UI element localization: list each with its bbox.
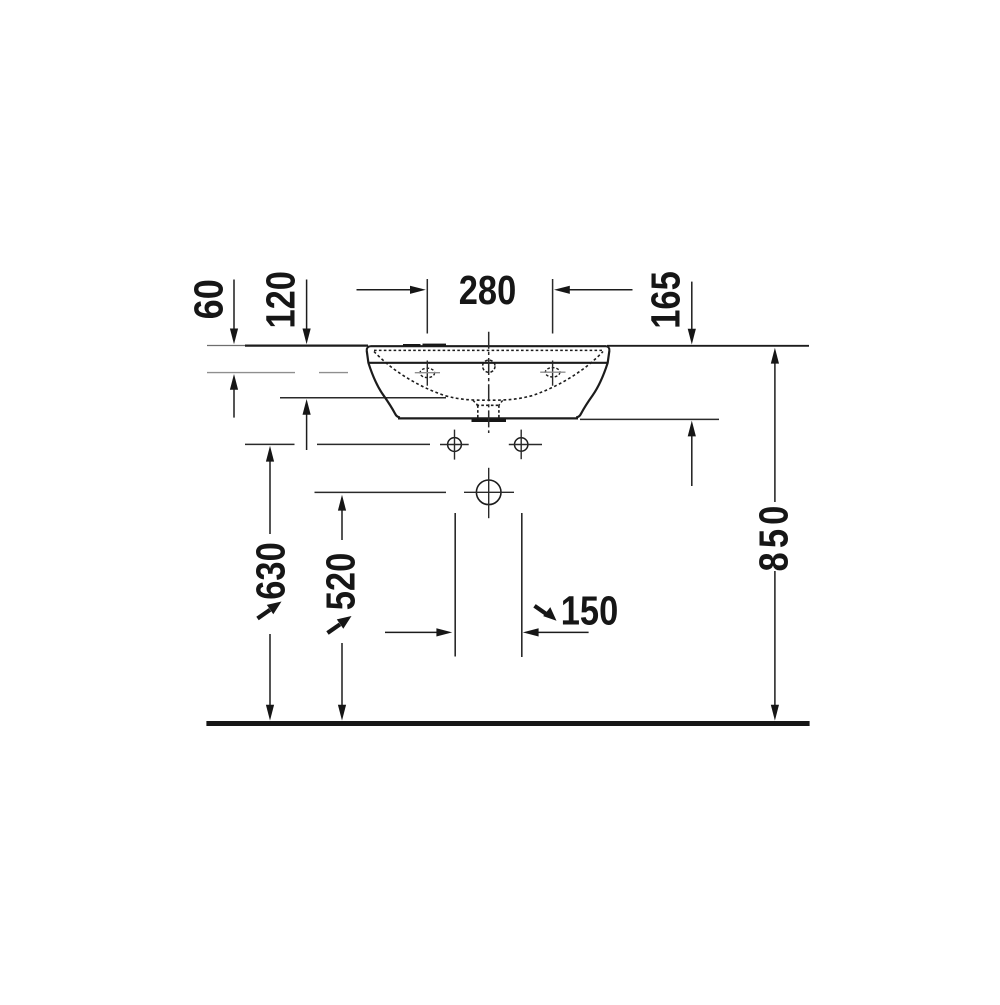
dim 520 line upper: [338, 495, 346, 540]
drain circle horizontal crosshair: [464, 491, 514, 493]
dim 850 line upper: [771, 348, 779, 502]
drain funnel dashed right slant: [499, 400, 503, 405]
dim 630 line upper: [266, 446, 274, 534]
basin rim front line: [369, 362, 609, 364]
basin top-right corner: [606, 346, 609, 350]
left tap hole dashed ellipse: [420, 368, 435, 377]
mounting holes line: [245, 443, 430, 445]
drain funnel dashed left slant: [473, 400, 478, 405]
basin bottom edge: [398, 417, 578, 419]
dim 120 down arrow: [303, 280, 311, 345]
right tap hole dashed ellipse: [545, 368, 560, 377]
dim 150 right extension line: [521, 513, 523, 657]
left tap hole vertical crosshair: [426, 361, 428, 386]
dim 280 right extension line: [552, 279, 554, 334]
basin top-left corner: [367, 346, 371, 350]
dim 150 leader arrow: [535, 606, 557, 621]
wall reference line left: [245, 345, 368, 347]
dim 850 line lower: [771, 571, 779, 721]
left mounting hole horizontal crosshair: [440, 444, 469, 446]
center faucet hole: [483, 360, 495, 372]
dim 520 leader arrow: [328, 616, 352, 633]
basin top edge: [371, 345, 607, 347]
bowl hidden outline dotted curve: [374, 352, 603, 401]
drain funnel dashed left wall: [477, 405, 479, 417]
svg-text:280: 280: [459, 268, 516, 313]
right mounting hole: [515, 438, 528, 451]
wall reference line left thin segment: [207, 345, 246, 347]
rim dark mark b: [423, 344, 447, 346]
drain bottom thick bar: [472, 419, 507, 422]
svg-text:60: 60: [186, 279, 232, 319]
svg-text:150: 150: [561, 589, 618, 634]
left tap hole horizontal crosshair (gray): [415, 372, 440, 374]
left mounting hole: [448, 438, 462, 452]
dim 120 up arrow: [303, 399, 311, 450]
drain funnel dashed right wall: [498, 405, 500, 417]
right tap hole horizontal crosshair (gray): [540, 371, 565, 373]
dim 630 leader arrow: [258, 602, 282, 619]
drain circle vertical crosshair: [488, 468, 490, 518]
dim 520 line lower: [338, 643, 346, 721]
svg-text:850: 850: [752, 501, 797, 571]
dim 280 left extension line: [426, 279, 428, 334]
tap hole centerline extension (gray): [207, 372, 348, 374]
wall reference line right: [607, 345, 809, 347]
right mounting hole vertical crosshair: [520, 430, 522, 460]
bottom-right reference line: [580, 418, 719, 420]
dim 60 down arrow: [230, 280, 238, 345]
svg-text:165: 165: [644, 271, 689, 328]
120 reference line: [280, 397, 446, 399]
basin right edge: [576, 351, 609, 418]
floor line: [206, 721, 809, 726]
rim dark mark a: [403, 344, 421, 346]
dim 165 up arrow: [688, 421, 696, 486]
dim 165 down arrow: [688, 282, 696, 345]
dim 150 left extension line: [454, 513, 456, 657]
drain line: [315, 491, 447, 493]
svg-text:120: 120: [259, 271, 304, 328]
drain circle: [476, 480, 501, 505]
dim 60 up arrow: [230, 374, 238, 418]
dim 280 left arrow: [357, 286, 426, 294]
dim 150 right arrow: [523, 628, 589, 636]
right tap hole vertical crosshair: [552, 361, 554, 386]
svg-text:630: 630: [249, 542, 294, 599]
left mounting hole vertical crosshair: [454, 430, 456, 460]
basin left edge: [367, 351, 400, 418]
drain funnel dashed top: [477, 404, 501, 406]
basin inner rim dashed line: [374, 349, 604, 351]
dim 280 right arrow: [554, 286, 633, 294]
svg-text:520: 520: [319, 553, 364, 610]
dim 630 line lower: [266, 634, 274, 721]
vertical centerline of basin: [488, 332, 490, 433]
right mounting hole horizontal crosshair: [509, 444, 542, 446]
dim 150 left arrow: [385, 628, 452, 636]
